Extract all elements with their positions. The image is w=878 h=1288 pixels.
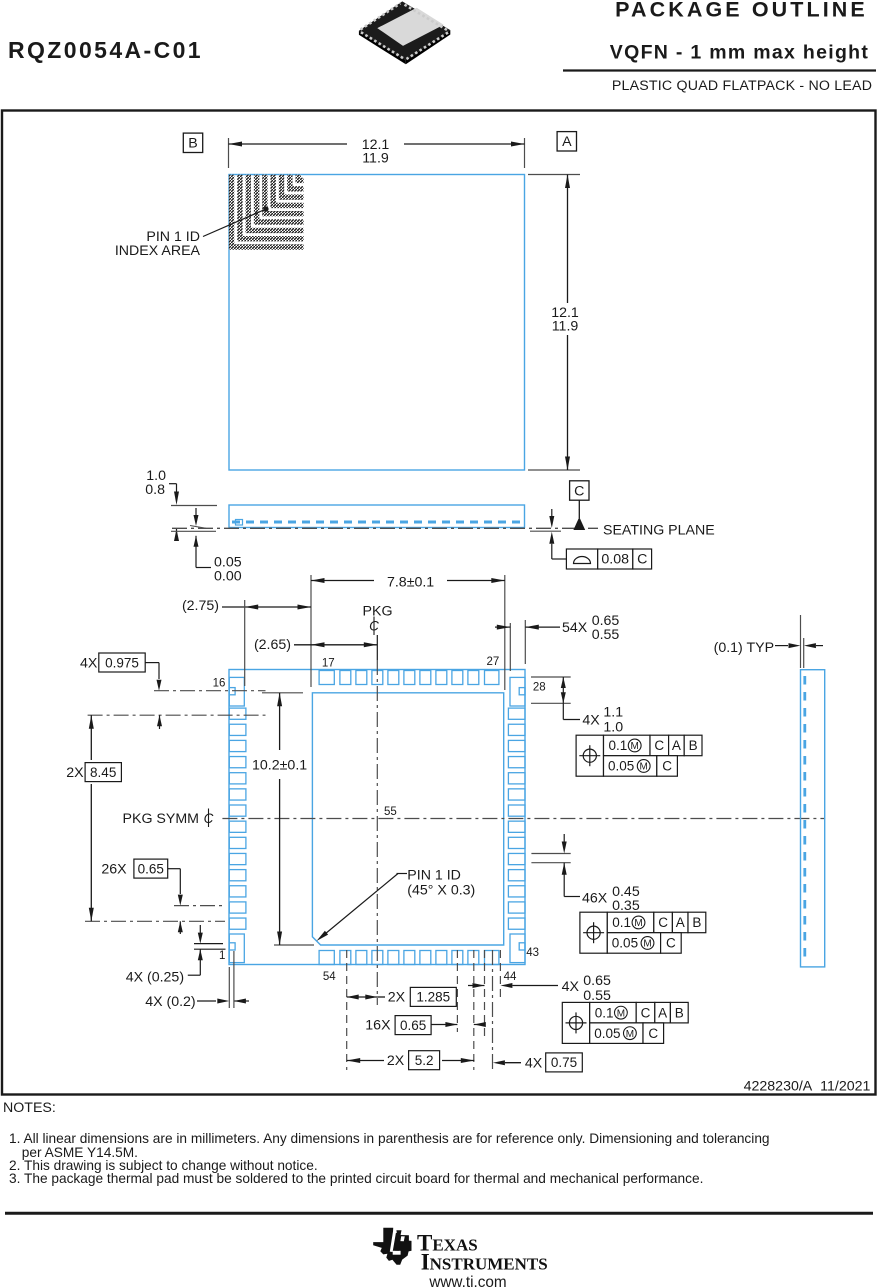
dimension (2.65) xyxy=(254,637,377,653)
svg-text:C: C xyxy=(666,936,676,951)
svg-text:PIN 1 ID: PIN 1 ID xyxy=(407,868,461,884)
svg-text:0.55: 0.55 xyxy=(592,627,620,643)
pin number labels xyxy=(213,656,546,983)
svg-text:16X: 16X xyxy=(365,1018,391,1034)
pin 1 index area hatch xyxy=(232,175,304,247)
svg-text:0.05: 0.05 xyxy=(612,936,638,951)
svg-text:PKG SYMM: PKG SYMM xyxy=(123,811,199,827)
header rule xyxy=(563,69,876,71)
svg-text:43: 43 xyxy=(526,947,539,959)
svg-text:M: M xyxy=(617,1008,625,1019)
extension lines below bottom row xyxy=(347,950,501,1072)
dimension 1.0/0.8 height xyxy=(145,468,217,541)
svg-text:(2.75): (2.75) xyxy=(182,598,219,614)
dimension 4X 0.65/0.55 xyxy=(468,973,611,1004)
svg-text:0.65: 0.65 xyxy=(138,861,164,876)
dimension 4X 1.1/1.0 xyxy=(531,677,623,736)
thermal pad 55 xyxy=(312,693,503,945)
svg-text:28: 28 xyxy=(533,682,546,694)
svg-text:C: C xyxy=(662,759,672,774)
dimension 4X (0.2) xyxy=(145,951,249,1010)
dimension 4X 0.75 xyxy=(493,1053,582,1072)
svg-text:0.00: 0.00 xyxy=(214,569,242,585)
svg-text:7.8±0.1: 7.8±0.1 xyxy=(387,574,434,590)
svg-text:www.ti.com: www.ti.com xyxy=(428,1274,506,1288)
dimension 46X 0.45/0.35 xyxy=(531,834,639,914)
tolerance frame corner pads xyxy=(576,735,702,776)
PKG SYMM label xyxy=(123,809,214,828)
svg-text:0.05: 0.05 xyxy=(594,1026,620,1041)
top row pins 17-27 xyxy=(319,671,499,685)
left column pins 15-2 xyxy=(229,708,246,929)
svg-text:1.285: 1.285 xyxy=(416,990,450,1005)
pin center datum lines left xyxy=(85,691,266,922)
dimension 10.2±0.1 xyxy=(252,693,314,945)
svg-text:26X: 26X xyxy=(101,862,127,878)
svg-text:5.2: 5.2 xyxy=(415,1053,434,1068)
svg-text:A: A xyxy=(658,1005,667,1020)
dimension 4X (0.25) xyxy=(126,925,226,986)
flatness frame 0.08 C xyxy=(530,509,652,569)
svg-text:0.1: 0.1 xyxy=(609,738,628,753)
svg-text:44: 44 xyxy=(504,971,517,983)
svg-text:C: C xyxy=(654,738,664,753)
svg-text:0.1: 0.1 xyxy=(595,1005,614,1020)
svg-text:3. The package thermal pad mus: 3. The package thermal pad must be solde… xyxy=(9,1171,703,1186)
svg-text:B: B xyxy=(692,915,701,930)
corner pad pin 16 xyxy=(229,677,244,706)
svg-text:4228230/A 11/2021: 4228230/A 11/2021 xyxy=(744,1079,871,1095)
side view package body xyxy=(229,505,525,528)
svg-text:4X: 4X xyxy=(80,655,98,671)
dimension 2X 8.45 xyxy=(66,715,121,921)
svg-text:4X (0.2): 4X (0.2) xyxy=(145,994,195,1010)
seating plane line xyxy=(172,527,598,529)
svg-text:4X: 4X xyxy=(525,1055,543,1071)
PKG vertical centerline xyxy=(376,635,378,1005)
svg-text:(45° X 0.3): (45° X 0.3) xyxy=(407,882,475,898)
svg-text:B: B xyxy=(675,1005,684,1020)
svg-text:VQFN - 1 mm max height: VQFN - 1 mm max height xyxy=(610,42,869,64)
svg-text:0.975: 0.975 xyxy=(105,655,139,670)
corner pad pin 28 xyxy=(510,677,525,706)
svg-text:0.8: 0.8 xyxy=(145,482,165,498)
svg-text:1. All linear dimensions are i: 1. All linear dimensions are in millimet… xyxy=(9,1131,770,1146)
svg-text:0.1: 0.1 xyxy=(612,915,631,930)
svg-text:M: M xyxy=(640,762,648,773)
tolerance frame leads xyxy=(580,912,706,953)
header title xyxy=(615,0,868,22)
document number xyxy=(744,1079,871,1095)
dimension (0.1) TYP xyxy=(714,615,823,668)
svg-text:M: M xyxy=(634,918,642,929)
bottom row pins 54-44 xyxy=(319,951,499,965)
top view package body xyxy=(229,175,525,471)
svg-text:10.2±0.1: 10.2±0.1 xyxy=(252,757,307,773)
svg-text:46X: 46X xyxy=(582,891,608,907)
svg-text:(0.1) TYP: (0.1) TYP xyxy=(714,640,774,656)
svg-text:NOTES:: NOTES: xyxy=(3,1100,56,1116)
svg-text:1.1: 1.1 xyxy=(603,705,623,721)
svg-text:2X: 2X xyxy=(66,765,84,781)
svg-text:M: M xyxy=(631,741,639,752)
right side view body xyxy=(801,670,825,967)
dimension 7.8±0.1 xyxy=(311,574,505,690)
header chip isometric icon xyxy=(359,1,450,64)
seating plane label xyxy=(603,523,715,539)
svg-text:16: 16 xyxy=(213,677,226,689)
footer url xyxy=(428,1274,506,1288)
TI logo bug xyxy=(373,1228,411,1265)
PKG SYMM horizontal centerline xyxy=(222,818,825,820)
svg-text:M: M xyxy=(643,939,651,950)
datum A xyxy=(557,132,576,151)
dimension 12.1/11.9 vertical xyxy=(528,175,580,471)
header subtitle xyxy=(610,42,869,64)
svg-text:PACKAGE OUTLINE: PACKAGE OUTLINE xyxy=(615,0,868,22)
svg-text:54: 54 xyxy=(323,971,336,983)
svg-text:C: C xyxy=(574,483,584,499)
corner pad pin 43 xyxy=(510,934,525,963)
svg-text:C: C xyxy=(658,915,668,930)
svg-text:55: 55 xyxy=(384,806,397,818)
dimension 4X 0.975 xyxy=(80,653,162,729)
svg-text:SEATING PLANE: SEATING PLANE xyxy=(603,523,715,539)
svg-text:M: M xyxy=(626,1029,634,1040)
header package type xyxy=(612,78,872,94)
svg-text:RQZ0054A-C01: RQZ0054A-C01 xyxy=(8,37,203,63)
notes xyxy=(3,1100,770,1186)
PKG centerline label xyxy=(363,604,393,636)
svg-text:0.08: 0.08 xyxy=(601,552,629,568)
svg-text:8.45: 8.45 xyxy=(90,765,116,780)
svg-text:PKG: PKG xyxy=(363,604,393,620)
dimension 2X 1.285 xyxy=(347,987,457,1006)
svg-text:C: C xyxy=(641,1005,651,1020)
svg-text:11.9: 11.9 xyxy=(362,151,389,167)
svg-text:4X: 4X xyxy=(582,713,600,729)
svg-text:A: A xyxy=(672,738,681,753)
svg-text:0.65: 0.65 xyxy=(400,1018,426,1033)
svg-text:(2.65): (2.65) xyxy=(254,637,291,653)
svg-text:C: C xyxy=(637,552,647,568)
svg-text:0.35: 0.35 xyxy=(612,898,640,914)
svg-text:4X (0.25): 4X (0.25) xyxy=(126,970,184,986)
pin 1 id leader and label xyxy=(115,206,269,259)
svg-text:54X: 54X xyxy=(562,620,588,636)
tolerance frame end leads xyxy=(562,1002,688,1043)
svg-text:INDEX AREA: INDEX AREA xyxy=(115,243,201,259)
bottom view package outline xyxy=(229,670,525,965)
svg-text:B: B xyxy=(188,136,197,152)
svg-text:4X: 4X xyxy=(562,979,580,995)
svg-text:17: 17 xyxy=(322,658,335,670)
svg-text:11.9: 11.9 xyxy=(552,318,579,334)
svg-text:0.55: 0.55 xyxy=(583,988,611,1004)
dimension 2X 5.2 xyxy=(347,1051,475,1070)
dimension 16X 0.65 xyxy=(365,1016,486,1035)
dimension 12.1/11.9 horizontal xyxy=(229,137,525,168)
datum B xyxy=(183,133,202,152)
svg-text:1: 1 xyxy=(219,950,225,962)
dimension 0.05/0.00 standoff xyxy=(171,508,242,585)
svg-text:A: A xyxy=(676,915,685,930)
pin 1 id chamfer label xyxy=(317,868,476,942)
datum C xyxy=(570,481,589,530)
svg-text:B: B xyxy=(689,738,698,753)
svg-text:C: C xyxy=(648,1026,658,1041)
dimension (2.75) xyxy=(182,598,311,686)
dimension 54X 0.65/0.55 xyxy=(495,613,619,671)
side view leads xyxy=(232,520,521,526)
svg-text:PLASTIC QUAD FLATPACK - NO LEA: PLASTIC QUAD FLATPACK - NO LEAD xyxy=(612,78,872,94)
drawing border frame xyxy=(2,111,876,1095)
dimension 26X 0.65 xyxy=(101,859,182,934)
svg-text:0.75: 0.75 xyxy=(551,1055,577,1070)
svg-text:0.65: 0.65 xyxy=(583,973,611,989)
TI logotype xyxy=(417,1231,548,1275)
svg-text:0.05: 0.05 xyxy=(608,759,634,774)
svg-text:2X: 2X xyxy=(388,990,406,1006)
svg-text:1.0: 1.0 xyxy=(603,720,623,736)
svg-text:2X: 2X xyxy=(387,1053,405,1069)
right side view lead profiles xyxy=(803,676,806,962)
svg-text:27: 27 xyxy=(487,656,500,668)
header part number xyxy=(8,37,203,63)
footer rule xyxy=(5,1212,873,1215)
corner pad pin 1 xyxy=(229,934,244,963)
svg-text:A: A xyxy=(562,134,572,150)
right column pins 29-42 xyxy=(508,708,525,929)
